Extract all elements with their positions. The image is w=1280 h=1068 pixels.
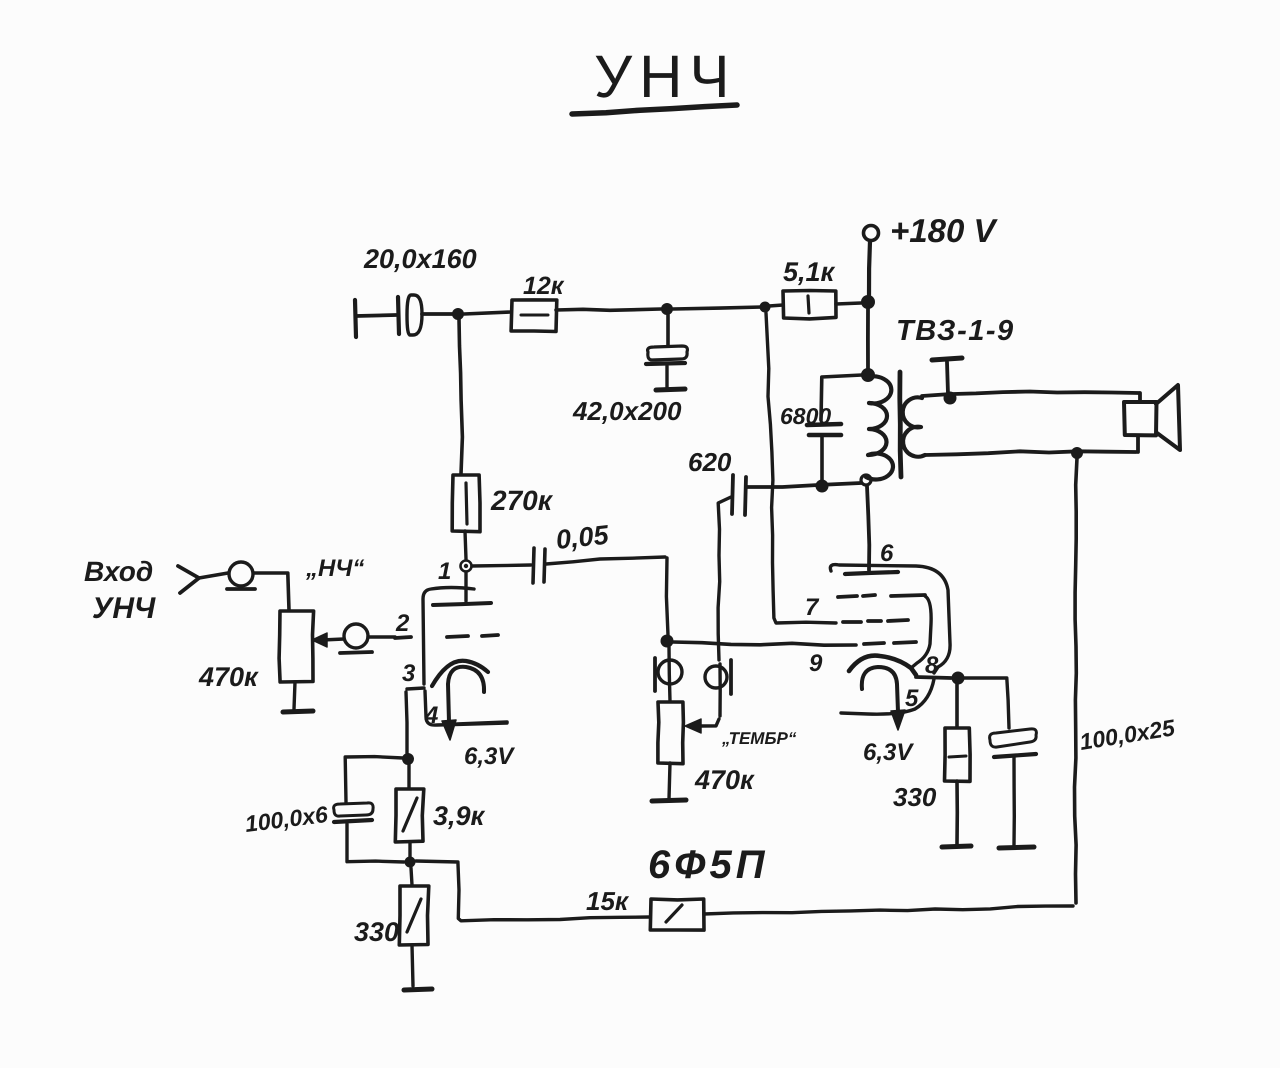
wire pin 1 to C3 [472, 565, 531, 566]
svg-text:+180 V: +180 V [890, 212, 998, 249]
label 3,9к [433, 801, 486, 831]
node secondary top [944, 392, 957, 405]
wire secondary top to speaker [922, 392, 1140, 403]
svg-text:8: 8 [925, 652, 939, 679]
wire node C to R3 [769, 305, 783, 306]
node bottom wire junction [816, 480, 829, 493]
resistor R6 3,9k [395, 789, 424, 842]
svg-text:270к: 270к [490, 485, 554, 516]
wire node H to feedback [416, 861, 650, 921]
label 470к tone [694, 765, 755, 795]
wire R9 to feedback line [704, 906, 1073, 914]
wire node B down to C2 [666, 315, 670, 346]
resistor R1 12k [511, 300, 557, 332]
svg-text:330: 330 [354, 917, 399, 947]
wire R5 to ground [669, 763, 670, 799]
svg-text:5,1к: 5,1к [783, 257, 836, 287]
speaker B1 box [1124, 402, 1157, 435]
triode anode plate [433, 603, 491, 605]
potentiometer R5 470k tone [658, 702, 684, 764]
pin 6 label [880, 540, 894, 567]
pentode screen grid dashes [843, 620, 908, 622]
svg-text:330: 330 [893, 782, 937, 812]
pentode envelope bottom [841, 679, 934, 714]
pin 2 label [395, 610, 410, 637]
triode heater lead [457, 722, 507, 724]
label 15к [586, 886, 630, 916]
wire C6 to ground [1012, 758, 1016, 845]
wire R2 to pin 1 [465, 531, 466, 559]
label ТВЗ-1-9 [896, 315, 1015, 347]
node F junction [661, 635, 674, 648]
label 100,0x25 [1078, 714, 1178, 755]
connector shield symbol input [227, 562, 255, 589]
wire C1 to node A [422, 312, 452, 316]
node pin 1 [461, 561, 472, 572]
capacitor C7 100,0x6 plates [334, 803, 374, 822]
label 42,0x200 [572, 396, 682, 426]
tone wiper arrow [685, 719, 719, 733]
wire node D to primary [866, 308, 870, 370]
transformer core [900, 372, 901, 477]
svg-text:4: 4 [424, 702, 438, 729]
pin 7 label [805, 594, 820, 621]
wire R8 to ground [412, 945, 413, 986]
svg-text:6,3V: 6,3V [464, 743, 515, 770]
power terminal +180V [864, 226, 879, 297]
pin 1 label [438, 558, 451, 585]
wire C7 to node H [347, 824, 404, 862]
title underline [572, 105, 737, 114]
pentode heater arrow [891, 710, 905, 730]
svg-text:Вход: Вход [84, 556, 153, 587]
svg-text:6: 6 [880, 540, 894, 567]
label 6,3V triode [464, 743, 515, 770]
svg-text:470к: 470к [694, 765, 755, 795]
svg-text:2: 2 [395, 610, 410, 637]
svg-text:5: 5 [905, 685, 919, 712]
wire feedback vertical [1075, 458, 1078, 903]
label 470к volume [198, 662, 259, 692]
svg-text:42,0х200: 42,0х200 [572, 396, 682, 426]
chassis bar above secondary [932, 358, 962, 394]
wire wiper to grid [368, 635, 395, 638]
node primary bottom circle [861, 475, 871, 485]
node D junction [861, 295, 875, 309]
triode heater [448, 667, 484, 722]
label 6800 [780, 403, 831, 429]
ground bar under R4 [283, 711, 313, 712]
transformer primary winding [866, 376, 893, 479]
wire primary bottom to pin 6 [867, 486, 869, 570]
wire node H to R8 [411, 868, 412, 885]
svg-text:6800: 6800 [780, 403, 831, 429]
wire R7 to ground [955, 781, 959, 844]
triode envelope [423, 588, 507, 726]
svg-text:15к: 15к [586, 886, 630, 916]
label 330 triode [354, 917, 399, 947]
triode grid dashes [395, 635, 498, 638]
svg-text:„НЧ“: „НЧ“ [305, 555, 364, 582]
node C junction [760, 302, 771, 313]
label 620 [688, 447, 732, 477]
wire pin 3 step [407, 688, 424, 689]
suppressor internal connection [911, 596, 931, 668]
svg-text:9: 9 [809, 650, 823, 677]
wire node C down to pin 7 [766, 313, 836, 623]
wire pin 1 to anode [464, 572, 467, 601]
svg-text:1: 1 [438, 558, 451, 585]
ground bar under C6 [999, 847, 1034, 848]
capacitor C4 6800 branch wire [821, 375, 862, 420]
label 20,0x160 [363, 244, 477, 274]
label 100,0x6 [243, 801, 329, 837]
svg-text:„ТЕМБР“: „ТЕМБР“ [721, 729, 797, 748]
capacitor C1 20,0x160 plates [398, 295, 422, 335]
capacitor C5 620 plates [732, 475, 746, 515]
wire node F to pin 9 [673, 642, 856, 645]
capacitor C6 100,0x25 plates [990, 729, 1037, 757]
wire bottom of primary [747, 483, 861, 487]
capacitor C4 6800 plates [807, 424, 841, 435]
wire secondary bottom to speaker [925, 436, 1138, 455]
ground bar under C2 [656, 389, 685, 390]
pentode heater [862, 667, 898, 712]
node E junction [952, 672, 965, 685]
triode heater arrow [442, 720, 456, 740]
pin 9 label [809, 650, 823, 677]
label +180 V [890, 212, 998, 249]
node G junction [402, 753, 414, 765]
node H junction [405, 857, 416, 868]
svg-text:20,0х160: 20,0х160 [363, 244, 477, 274]
wire connector to pot [254, 573, 289, 610]
svg-text:7: 7 [805, 594, 820, 621]
wire C5 to wiper [718, 497, 731, 716]
ground bar under R7 [942, 846, 971, 847]
title УНЧ [594, 43, 736, 110]
speaker B1 horn [1156, 385, 1180, 450]
potentiometer R4 470k volume [279, 611, 314, 682]
wire node A down to R2 [459, 319, 462, 474]
label 6Ф5П [648, 843, 769, 887]
label ВХОД [84, 556, 153, 587]
label ТЕМБР [721, 729, 797, 748]
node speaker bottom junction [1071, 447, 1083, 459]
wire node E to C6 [964, 678, 1009, 728]
ground bar under R8 [404, 989, 432, 990]
label НЧ [305, 555, 364, 582]
wire node G left to C7 [345, 757, 403, 802]
wire R3 to node D [836, 303, 861, 304]
label УНЧ input [92, 592, 156, 625]
svg-text:12к: 12к [523, 272, 565, 300]
svg-text:ТВЗ-1-9: ТВЗ-1-9 [896, 315, 1015, 347]
wire node F down [669, 647, 670, 701]
input arrow [178, 566, 199, 593]
svg-text:УНЧ: УНЧ [92, 592, 156, 625]
capacitor C3 0,05 plates [533, 548, 545, 583]
wire R4 to ground [294, 682, 295, 709]
wire node A to R1 [464, 312, 511, 314]
resistor R3 5,1k [783, 291, 836, 319]
connector shield symbol tone right [705, 660, 731, 694]
wire arrow to connector [199, 573, 228, 578]
resistor R2 270k [452, 475, 480, 532]
volume wiper arrow [312, 633, 344, 647]
svg-text:УНЧ: УНЧ [594, 43, 736, 110]
resistor R8 330 [399, 886, 429, 945]
pentode cathode [849, 656, 916, 675]
wire node G to R6 [407, 765, 410, 788]
label 0,05 [554, 520, 610, 555]
svg-text:3,9к: 3,9к [433, 801, 486, 831]
wire node B to node C [673, 307, 762, 309]
node primary top [861, 368, 875, 382]
pentode control grid dashes [864, 642, 916, 644]
input terminal stub [355, 300, 396, 337]
wire node E to R7 [955, 684, 959, 727]
pin 4 label [424, 702, 438, 729]
svg-text:470к: 470к [198, 662, 259, 692]
pentode suppressor grid dashes [838, 595, 925, 597]
connector shield symbol wiper [340, 624, 372, 653]
pin 8 label [925, 652, 939, 679]
connector shield symbol tone left [655, 658, 682, 691]
svg-text:3: 3 [402, 660, 416, 687]
wire C5 to bottom wire [746, 485, 747, 488]
resistor R7 330 [945, 728, 971, 781]
wire R6 to node H [408, 842, 411, 858]
pin 5 label [905, 685, 919, 712]
pentode anode plate [845, 572, 898, 574]
transformer secondary winding [903, 397, 925, 456]
node B junction [661, 303, 673, 315]
label 5,1к [783, 257, 836, 287]
wire C3 to node F [546, 557, 668, 635]
label 6,3V pentode [863, 739, 914, 766]
resistor R9 15k [650, 899, 704, 930]
wire R1 to node B [556, 309, 661, 310]
pin 3 label [402, 660, 416, 687]
label 330 pentode [893, 782, 937, 812]
svg-text:6,3V: 6,3V [863, 739, 914, 766]
wire pin 8 to node E [916, 677, 951, 678]
triode cathode [432, 661, 488, 686]
wire C4 to bottom [820, 437, 824, 481]
svg-text:620: 620 [688, 447, 732, 477]
capacitor C2 42,0x200 [646, 346, 687, 387]
wire pin 3 down [406, 692, 407, 753]
svg-text:6Ф5П: 6Ф5П [648, 843, 769, 887]
svg-text:0,05: 0,05 [554, 520, 610, 555]
label 12к [523, 272, 565, 300]
pentode envelope top [830, 565, 950, 673]
label 270к [490, 485, 554, 516]
ground bar under R5 [652, 800, 686, 801]
node A junction [452, 308, 464, 320]
